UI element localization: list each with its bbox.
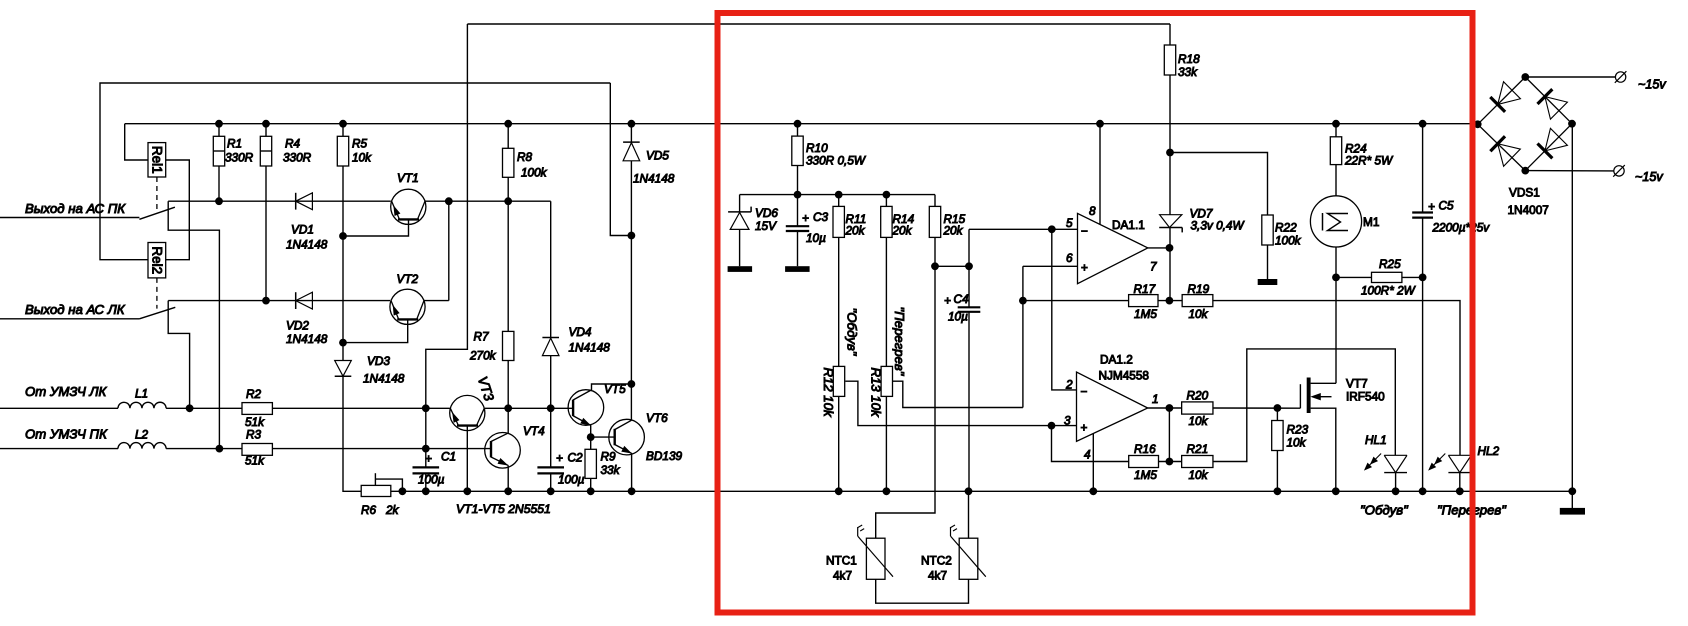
svg-text:VT2: VT2 <box>397 272 419 286</box>
svg-text:+: + <box>944 294 951 308</box>
svg-text:+: + <box>425 452 432 466</box>
svg-text:+: + <box>1081 421 1088 435</box>
svg-text:20k: 20k <box>845 224 866 238</box>
svg-text:C1: C1 <box>441 450 456 464</box>
svg-text:10k: 10k <box>1189 307 1209 321</box>
svg-text:VD4: VD4 <box>569 325 592 339</box>
svg-text:100µ: 100µ <box>418 473 445 487</box>
svg-text:C3: C3 <box>813 210 829 224</box>
svg-text:R25: R25 <box>1379 257 1401 271</box>
svg-text:От УМЗЧ ПК: От УМЗЧ ПК <box>25 427 108 442</box>
svg-text:R19: R19 <box>1188 282 1210 296</box>
svg-text:C5: C5 <box>1439 199 1455 213</box>
svg-text:20k: 20k <box>943 224 964 238</box>
svg-text:R16: R16 <box>1134 442 1156 456</box>
svg-text:−: − <box>1081 385 1088 399</box>
svg-text:R6: R6 <box>361 503 377 517</box>
svg-text:4: 4 <box>1084 448 1091 462</box>
svg-text:1N4148: 1N4148 <box>569 341 611 355</box>
svg-text:6: 6 <box>1066 251 1073 265</box>
svg-text:33k: 33k <box>601 463 621 477</box>
svg-text:100R* 2W: 100R* 2W <box>1361 284 1417 298</box>
svg-text:1M5: 1M5 <box>1134 468 1157 482</box>
svg-text:10k: 10k <box>1189 468 1209 482</box>
svg-text:R13 10k: R13 10k <box>869 367 884 418</box>
svg-text:C2: C2 <box>568 451 584 465</box>
svg-text:330R: 330R <box>283 151 312 165</box>
svg-text:VD5: VD5 <box>646 149 669 163</box>
svg-text:VT6: VT6 <box>646 411 668 425</box>
svg-text:R8: R8 <box>517 150 533 164</box>
svg-text:10k: 10k <box>1189 414 1209 428</box>
svg-text:VT4: VT4 <box>523 424 545 438</box>
svg-text:M1: M1 <box>1363 215 1379 229</box>
svg-text:2k: 2k <box>385 503 400 517</box>
svg-text:DA1.2: DA1.2 <box>1100 353 1133 367</box>
svg-text:Rel1: Rel1 <box>150 146 165 174</box>
svg-text:+: + <box>1428 200 1435 214</box>
svg-text:NTC1: NTC1 <box>826 554 857 568</box>
svg-text:10µ: 10µ <box>948 310 968 324</box>
svg-text:1M5: 1M5 <box>1134 307 1157 321</box>
svg-text:VD3: VD3 <box>367 354 390 368</box>
svg-text:~15v: ~15v <box>1635 170 1663 184</box>
svg-text:R2: R2 <box>246 387 262 401</box>
svg-text:VD6: VD6 <box>755 206 778 220</box>
svg-text:R20: R20 <box>1187 389 1209 403</box>
svg-text:R5: R5 <box>352 137 368 151</box>
svg-text:VT5: VT5 <box>604 382 626 396</box>
svg-text:VDS1: VDS1 <box>1509 186 1540 200</box>
svg-text:3: 3 <box>1064 414 1071 428</box>
svg-text:L2: L2 <box>135 428 149 442</box>
svg-text:3,3v 0,4W: 3,3v 0,4W <box>1191 219 1246 233</box>
svg-text:2: 2 <box>1065 378 1073 392</box>
svg-text:R22: R22 <box>1275 221 1297 235</box>
svg-text:R12 10k: R12 10k <box>821 367 836 418</box>
svg-text:R3: R3 <box>246 428 262 442</box>
svg-text:1: 1 <box>1152 392 1159 406</box>
svg-text:NTC2: NTC2 <box>921 554 952 568</box>
svg-text:10k: 10k <box>352 151 372 165</box>
svg-text:20k: 20k <box>892 224 913 238</box>
svg-text:100µ: 100µ <box>558 473 585 487</box>
svg-text:100k: 100k <box>1275 234 1302 248</box>
svg-text:NJM4558: NJM4558 <box>1099 369 1150 383</box>
svg-text:4k7: 4k7 <box>928 569 947 583</box>
svg-text:1N4007: 1N4007 <box>1508 203 1549 217</box>
svg-text:1N4148: 1N4148 <box>286 238 328 252</box>
svg-text:Выход на АС ПК: Выход на АС ПК <box>25 201 126 216</box>
svg-text:"Обдув": "Обдув" <box>1360 503 1409 518</box>
svg-text:R4: R4 <box>285 137 301 151</box>
svg-text:8: 8 <box>1089 204 1096 218</box>
svg-text:330R: 330R <box>225 151 254 165</box>
svg-text:5: 5 <box>1066 216 1073 230</box>
svg-text:R21: R21 <box>1187 442 1209 456</box>
svg-text:"Перегрев": "Перегрев" <box>892 307 907 377</box>
svg-text:BD139: BD139 <box>646 449 683 463</box>
svg-text:100k: 100k <box>521 166 548 180</box>
svg-text:330R 0,5W: 330R 0,5W <box>806 154 867 168</box>
svg-text:~15v: ~15v <box>1638 78 1666 92</box>
svg-text:HL2: HL2 <box>1478 444 1500 458</box>
svg-text:DA1.1: DA1.1 <box>1112 218 1145 232</box>
svg-text:R23: R23 <box>1287 423 1309 437</box>
svg-text:VT1: VT1 <box>397 171 419 185</box>
svg-text:R7: R7 <box>474 330 490 344</box>
svg-text:R17: R17 <box>1134 282 1156 296</box>
svg-text:"Обдув": "Обдув" <box>845 308 860 357</box>
svg-text:C4: C4 <box>954 292 970 306</box>
svg-text:+: + <box>1081 261 1088 275</box>
svg-text:VD2: VD2 <box>286 319 309 333</box>
svg-text:−: − <box>1081 224 1088 238</box>
svg-text:4k7: 4k7 <box>833 569 852 583</box>
svg-text:L1: L1 <box>135 387 148 401</box>
svg-text:10k: 10k <box>1287 436 1307 450</box>
svg-text:1N4148: 1N4148 <box>633 172 675 186</box>
svg-text:10µ: 10µ <box>806 231 826 245</box>
svg-text:1N4148: 1N4148 <box>286 332 328 346</box>
svg-text:270k: 270k <box>469 349 497 363</box>
svg-text:R9: R9 <box>601 450 617 464</box>
svg-text:HL1: HL1 <box>1365 433 1387 447</box>
svg-text:IRF540: IRF540 <box>1346 390 1385 404</box>
svg-text:2200µ*25v: 2200µ*25v <box>1432 221 1491 235</box>
svg-text:Rel2: Rel2 <box>150 246 165 274</box>
svg-text:VD1: VD1 <box>291 223 314 237</box>
svg-text:От УМЗЧ ЛК: От УМЗЧ ЛК <box>25 384 108 399</box>
svg-text:15V: 15V <box>755 219 777 233</box>
svg-text:R18: R18 <box>1178 52 1200 66</box>
svg-text:VT1-VT5 2N5551: VT1-VT5 2N5551 <box>456 502 551 516</box>
svg-text:7: 7 <box>1150 260 1157 274</box>
svg-text:1N4148: 1N4148 <box>363 372 405 386</box>
svg-text:R1: R1 <box>227 137 242 151</box>
svg-text:+: + <box>556 451 563 465</box>
svg-text:51k: 51k <box>245 454 265 468</box>
svg-text:22R* 5W: 22R* 5W <box>1344 154 1394 168</box>
svg-text:Выход на АС ЛК: Выход на АС ЛК <box>25 302 126 317</box>
svg-text:+: + <box>802 211 809 225</box>
svg-text:33k: 33k <box>1178 65 1198 79</box>
svg-text:VT7: VT7 <box>1346 377 1368 391</box>
